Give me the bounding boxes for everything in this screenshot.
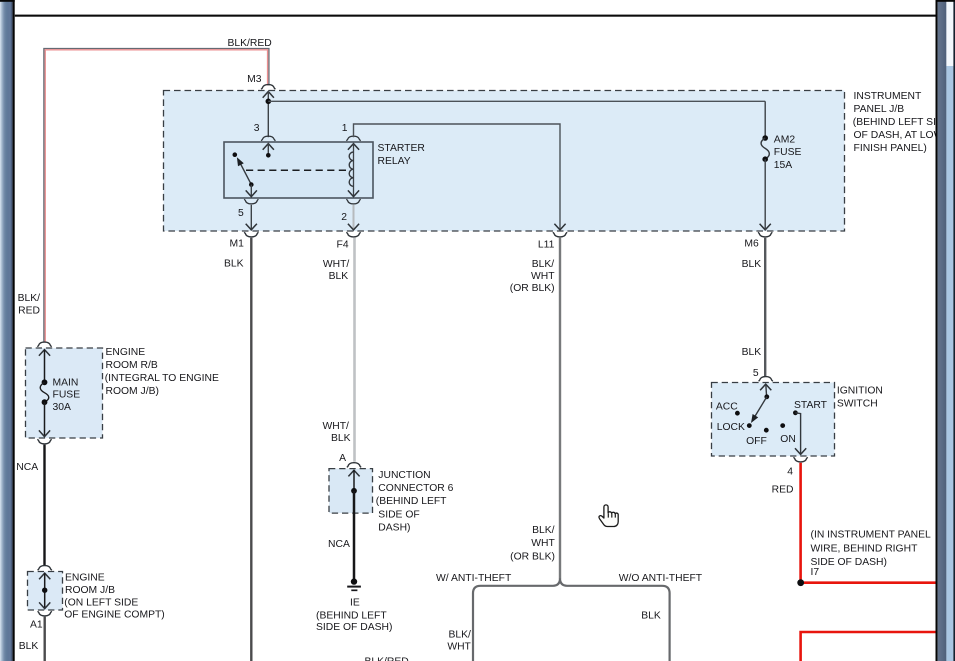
svg-text:FUSE: FUSE <box>53 390 81 401</box>
svg-text:BLK: BLK <box>742 259 762 270</box>
svg-text:SIDE OF DASH): SIDE OF DASH) <box>316 622 392 633</box>
svg-text:(OR BLK): (OR BLK) <box>510 552 555 563</box>
svg-text:LOCK: LOCK <box>717 422 745 433</box>
svg-text:A: A <box>339 453 346 464</box>
svg-text:(BEHIND LEFT: (BEHIND LEFT <box>316 611 387 622</box>
svg-text:NCA: NCA <box>328 539 350 550</box>
svg-text:(OR BLK): (OR BLK) <box>510 283 555 294</box>
svg-text:AM2: AM2 <box>774 134 796 145</box>
svg-text:ROOM R/B: ROOM R/B <box>106 360 158 371</box>
svg-text:SIDE OF: SIDE OF <box>378 509 419 520</box>
svg-text:CONNECTOR 6: CONNECTOR 6 <box>378 483 453 494</box>
svg-text:BLK/: BLK/ <box>18 293 41 304</box>
svg-text:BLK/RED: BLK/RED <box>228 38 272 49</box>
svg-text:OF ENGINE COMPT): OF ENGINE COMPT) <box>64 610 165 621</box>
svg-text:(BEHIND LEFT: (BEHIND LEFT <box>376 496 447 507</box>
svg-text:ENGINE: ENGINE <box>65 573 105 584</box>
svg-text:INSTRUMENT: INSTRUMENT <box>854 91 922 102</box>
svg-text:ACC: ACC <box>716 401 738 412</box>
svg-text:1: 1 <box>342 123 348 134</box>
svg-text:BLK/: BLK/ <box>448 630 471 641</box>
svg-text:BLK: BLK <box>742 347 762 358</box>
svg-text:BLK: BLK <box>19 641 39 652</box>
svg-text:BLK: BLK <box>641 611 661 622</box>
svg-text:SIDE OF DASH): SIDE OF DASH) <box>811 557 887 568</box>
svg-text:SWITCH: SWITCH <box>837 399 878 410</box>
svg-text:3: 3 <box>254 123 260 134</box>
svg-text:M1: M1 <box>230 238 245 249</box>
svg-text:WHT/: WHT/ <box>323 259 350 270</box>
svg-text:W/O ANTI-THEFT: W/O ANTI-THEFT <box>619 573 703 584</box>
svg-text:IGNITION: IGNITION <box>837 385 883 396</box>
svg-text:A1: A1 <box>30 619 43 630</box>
svg-text:(ON LEFT SIDE: (ON LEFT SIDE <box>64 597 138 608</box>
svg-text:DASH): DASH) <box>378 523 410 534</box>
svg-text:30A: 30A <box>53 402 72 413</box>
svg-text:START: START <box>794 400 828 411</box>
svg-text:RED: RED <box>18 306 40 317</box>
svg-text:M6: M6 <box>744 238 759 249</box>
svg-text:F4: F4 <box>337 240 349 251</box>
svg-text:BLK: BLK <box>329 271 349 282</box>
svg-text:ROOM J/B): ROOM J/B) <box>106 386 159 397</box>
svg-text:4: 4 <box>787 466 793 477</box>
svg-text:(INTEGRAL TO ENGINE: (INTEGRAL TO ENGINE <box>105 373 219 384</box>
svg-text:MAIN: MAIN <box>53 378 79 389</box>
svg-text:NCA: NCA <box>16 462 38 473</box>
svg-text:PANEL J/B: PANEL J/B <box>854 104 905 115</box>
svg-text:M3: M3 <box>247 74 262 85</box>
svg-text:L11: L11 <box>538 240 555 251</box>
svg-text:WHT: WHT <box>531 538 555 549</box>
svg-text:WIRE, BEHIND RIGHT: WIRE, BEHIND RIGHT <box>811 543 919 554</box>
svg-text:WHT: WHT <box>531 271 555 282</box>
svg-text:ROOM J/B: ROOM J/B <box>65 585 115 596</box>
svg-text:BLK/: BLK/ <box>532 525 555 536</box>
svg-text:RED: RED <box>772 484 794 495</box>
svg-text:OFF: OFF <box>746 436 767 447</box>
svg-text:RELAY: RELAY <box>378 156 411 167</box>
svg-text:BLK/: BLK/ <box>532 259 555 270</box>
svg-text:W/ ANTI-THEFT: W/ ANTI-THEFT <box>436 573 512 584</box>
svg-text:BLK: BLK <box>331 433 351 444</box>
svg-text:15A: 15A <box>774 160 793 171</box>
svg-text:BLK/RED: BLK/RED <box>365 657 409 661</box>
svg-text:FUSE: FUSE <box>774 147 802 158</box>
svg-text:ON: ON <box>780 434 796 445</box>
svg-text:IE: IE <box>350 598 360 609</box>
svg-text:5: 5 <box>753 368 759 379</box>
svg-text:WHT: WHT <box>447 642 471 653</box>
svg-text:STARTER: STARTER <box>378 143 425 154</box>
svg-text:BLK: BLK <box>224 259 244 270</box>
svg-text:WHT/: WHT/ <box>323 421 350 432</box>
svg-text:I7: I7 <box>811 567 820 578</box>
svg-text:5: 5 <box>238 208 244 219</box>
svg-text:JUNCTION: JUNCTION <box>378 470 430 481</box>
svg-text:FINISH PANEL): FINISH PANEL) <box>854 143 927 154</box>
svg-text:ENGINE: ENGINE <box>106 347 146 358</box>
svg-text:2: 2 <box>341 212 347 223</box>
svg-text:(IN INSTRUMENT PANEL: (IN INSTRUMENT PANEL <box>811 530 932 541</box>
